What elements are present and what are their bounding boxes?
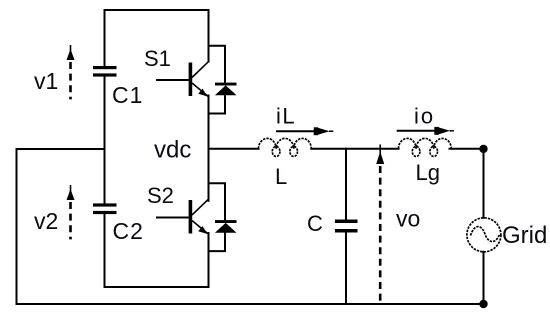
wire bottom bus bbox=[17, 303, 484, 305]
wire C1 bottom to C2 top bbox=[104, 77, 106, 204]
wire vdc node to inductor L bbox=[209, 148, 259, 150]
wire D2 anode link bbox=[209, 233, 226, 251]
wire grid branch bottom bbox=[483, 252, 485, 304]
wire top bus (C1 top to S1 collector top) bbox=[105, 10, 209, 66]
wire C branch bottom bbox=[345, 233, 347, 304]
node: grid top junction bbox=[479, 145, 487, 153]
svg-text:S1: S1 bbox=[144, 46, 171, 71]
svg-text:vo: vo bbox=[396, 206, 420, 232]
svg-text:C1: C1 bbox=[112, 82, 143, 108]
transistor S2 bbox=[156, 199, 209, 235]
svg-text:io: io bbox=[414, 104, 435, 129]
svg-text:C2: C2 bbox=[113, 218, 144, 244]
transistor S1 bbox=[156, 61, 209, 97]
AC source Grid bbox=[467, 218, 501, 252]
wire grid branch top bbox=[483, 149, 485, 218]
capacitor C2 bbox=[93, 203, 117, 214]
arrow io bbox=[397, 127, 454, 135]
capacitor C bbox=[335, 220, 358, 233]
svg-text:L: L bbox=[275, 164, 287, 189]
arrow v2 (dashed voltage arrow) bbox=[67, 185, 75, 239]
diode D1 bbox=[215, 83, 237, 96]
wire L to C branch to Lg bbox=[311, 148, 398, 150]
svg-text:v2: v2 bbox=[34, 208, 58, 234]
wire switch midpoint vertical (S1 emitter to S2 collector) bbox=[208, 96, 210, 201]
svg-text:S2: S2 bbox=[147, 183, 174, 208]
svg-text:vdc: vdc bbox=[154, 137, 191, 164]
diode D2 bbox=[215, 220, 237, 233]
wire D2 cathode link bbox=[209, 183, 226, 220]
arrow vo (dashed voltage arrow) bbox=[376, 145, 384, 302]
wire D1 cathode link bbox=[209, 46, 226, 83]
svg-text:Grid: Grid bbox=[502, 222, 547, 249]
wire D1 anode link bbox=[209, 95, 226, 113]
arrow iL bbox=[276, 127, 333, 135]
node: grid bottom junction bbox=[479, 300, 487, 308]
wire C branch top bbox=[345, 149, 347, 220]
wire S2 emitter to bottom inner bus to C2 bottom bbox=[105, 215, 209, 288]
arrow v1 (dashed voltage arrow) bbox=[67, 45, 75, 99]
inductor Lg bbox=[399, 138, 452, 156]
inductor L bbox=[259, 138, 312, 156]
wire neutral: cap midpoint to outer left drop bbox=[17, 149, 105, 304]
svg-text:C: C bbox=[307, 211, 323, 236]
wire Lg to grid node bbox=[450, 148, 484, 150]
svg-text:iL: iL bbox=[276, 104, 296, 129]
svg-text:Lg: Lg bbox=[416, 160, 440, 185]
capacitor C1 bbox=[93, 66, 117, 77]
svg-text:v1: v1 bbox=[34, 68, 58, 94]
